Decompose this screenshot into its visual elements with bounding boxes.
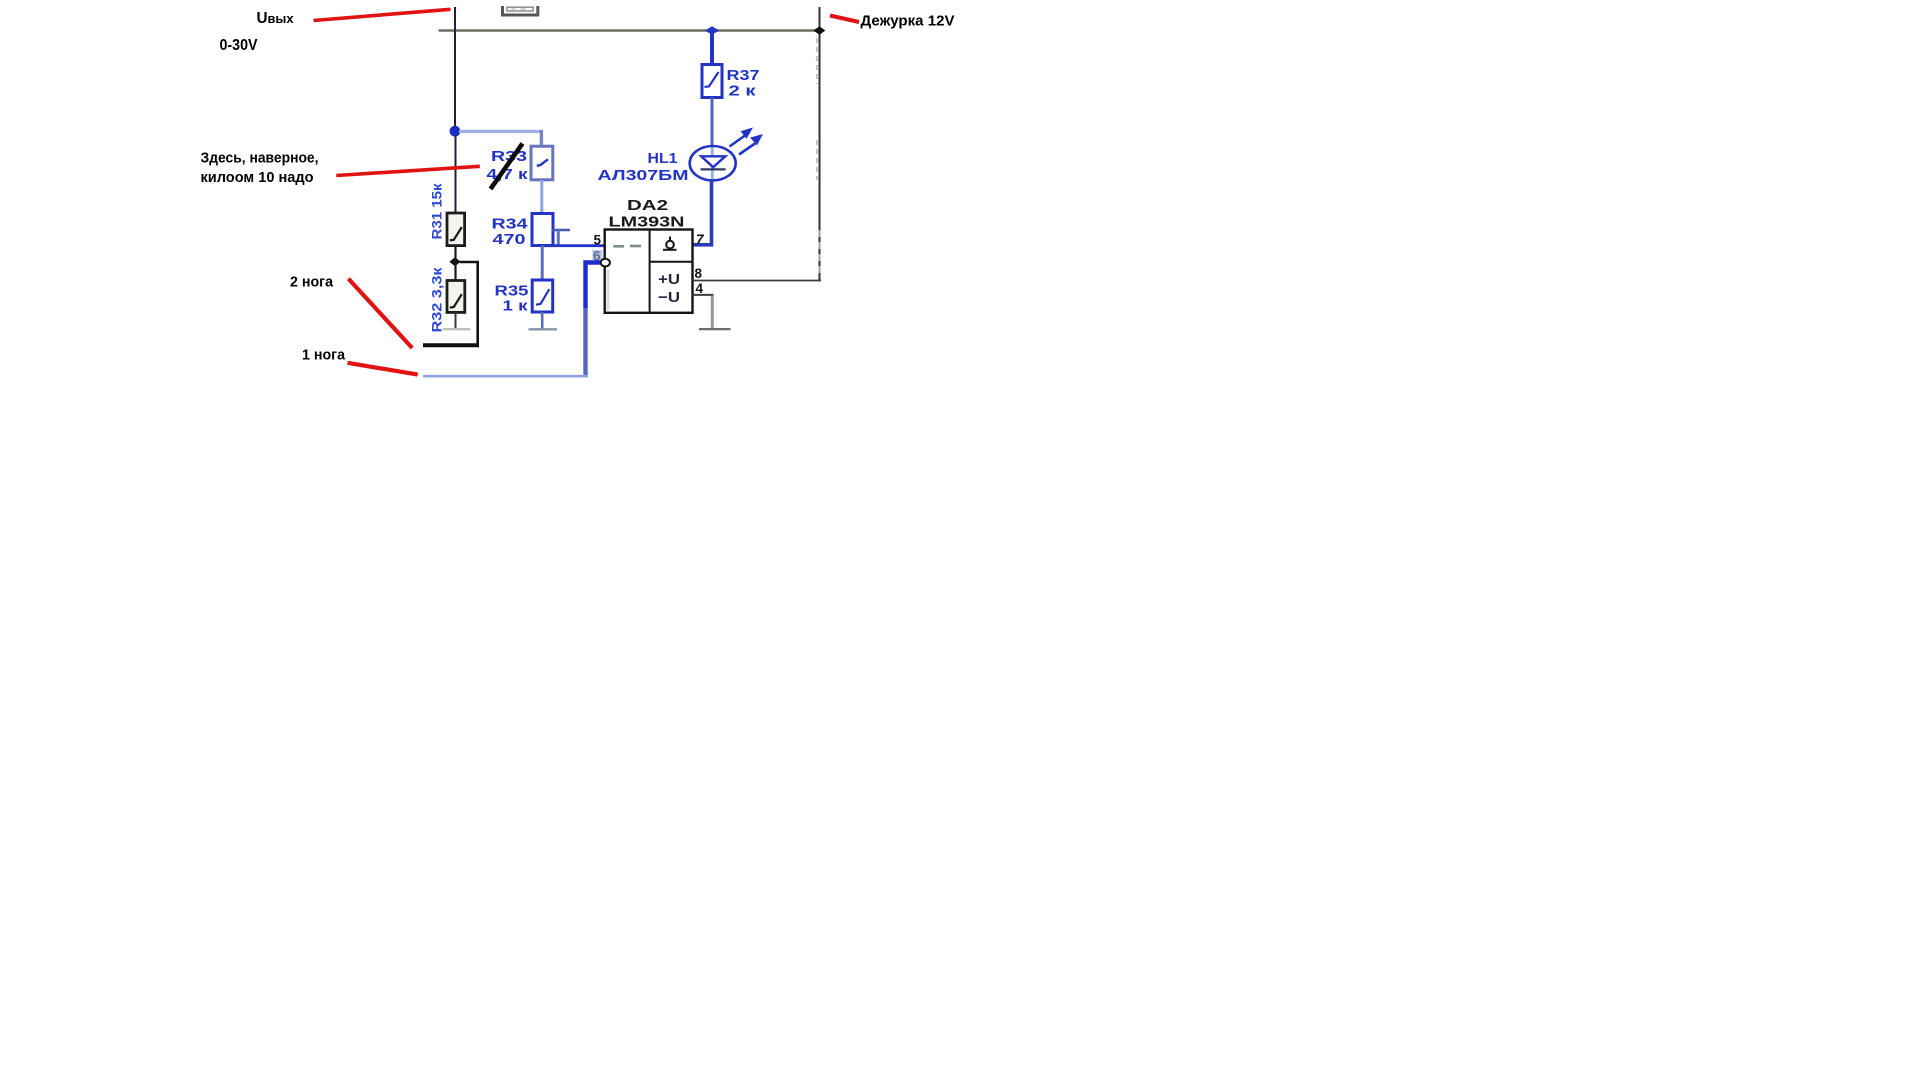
wire: left vertical Uvyh net upper: [454, 7, 456, 136]
DA2 comparator symbol: [663, 237, 677, 250]
wire: R34 tap stub: [552, 229, 571, 231]
svg-text:Здесь, наверное,: Здесь, наверное,: [201, 150, 319, 167]
node: blue junction on bus: [705, 26, 719, 35]
svg-text:1 к: 1 к: [503, 298, 529, 314]
wire: right vertical standby 12V net: [819, 7, 821, 281]
label DA2 LM393N: [609, 198, 685, 231]
svg-text:R32 3,3к: R32 3,3к: [430, 267, 445, 332]
wire: below R32 with light end tick: [455, 312, 457, 329]
connector tab fragment at top: [503, 6, 538, 15]
svg-text:HL1: HL1: [648, 151, 678, 167]
svg-text:R34: R34: [492, 216, 528, 232]
resistor R31: [447, 213, 465, 246]
svg-text:АЛ307БМ: АЛ307БМ: [598, 168, 689, 184]
resistor R33 (crossed out): [531, 146, 553, 180]
wire: 1 noga horizontal: [423, 375, 588, 378]
wire: jpeg artifact dashes on standby net: [817, 38, 820, 276]
wire: top horizontal 12V bus: [439, 29, 821, 31]
resistor R32: [447, 281, 465, 313]
wire: R31 to R32: [454, 246, 456, 282]
resistor R34: [532, 214, 553, 246]
wire: R37 to LED: [711, 98, 714, 148]
red arrow: 2 noga: [348, 279, 412, 348]
node: blue junction Uvyh net: [450, 126, 461, 137]
svg-text:R37: R37: [727, 68, 760, 84]
svg-text:R31 15к: R31 15к: [430, 183, 445, 239]
node: black junction on bus at standby net: [813, 26, 825, 34]
LED HL1: [690, 146, 736, 180]
LED light arrows: [730, 128, 763, 154]
wire: junction to R33: [459, 130, 541, 133]
strike-out line over R33 value: [491, 144, 523, 190]
svg-text:1 нога: 1 нога: [302, 347, 346, 364]
svg-text:5: 5: [594, 232, 602, 247]
wire: to pin 5: [542, 244, 605, 247]
svg-text:4,7 к: 4,7 к: [487, 167, 529, 183]
svg-text:+U: +U: [658, 271, 680, 288]
wire: R33 to R34: [540, 180, 543, 214]
label HL1 AL307BM: [598, 151, 689, 184]
wire: bus junction down to R37: [710, 31, 714, 65]
wire: pin 4 to ground: [693, 294, 714, 296]
resistor R35: [532, 280, 553, 312]
svg-text:DA2: DA2: [627, 198, 668, 214]
svg-text:2 нога: 2 нога: [290, 274, 334, 291]
jpeg artifact band inside DA2 left edge: [607, 270, 610, 311]
svg-text:Uвых: Uвых: [257, 10, 295, 27]
node: black junction below R31: [449, 257, 461, 266]
svg-text:−U: −U: [658, 289, 680, 306]
red arrow: annotation to R33: [336, 166, 480, 175]
comparator DA2 box: [605, 230, 693, 313]
label +U -U: [658, 271, 680, 306]
resistor R37: [702, 65, 722, 98]
wire: R34 to R35: [541, 246, 544, 281]
svg-text:R35: R35: [495, 284, 529, 300]
pin 6 stub patch: [592, 250, 602, 261]
wire: below R35 with end tick: [541, 312, 544, 329]
wire: 2 noga black loop: [460, 262, 478, 345]
svg-text:килоом 10 надо: килоом 10 надо: [201, 169, 314, 186]
DA2 input dashes: [613, 245, 624, 248]
svg-text:Дежурка 12V: Дежурка 12V: [861, 12, 955, 29]
wire: pin 6 to 1 noga (thick blue down): [586, 263, 601, 309]
label R34 470: [492, 216, 528, 248]
svg-text:8: 8: [695, 266, 703, 281]
ground: [699, 328, 731, 330]
svg-text:2 к: 2 к: [729, 83, 757, 99]
wire: LED to pin 7 of DA2: [693, 179, 712, 245]
svg-text:470: 470: [493, 232, 526, 248]
label R35 1k: [495, 284, 529, 315]
svg-text:LM393N: LM393N: [609, 215, 685, 231]
label R33 4,7k: [487, 149, 529, 183]
svg-text:0-30V: 0-30V: [220, 37, 259, 54]
red arrow: standby label: [830, 16, 859, 23]
red arrow: Uvyh to net: [314, 9, 451, 20]
label R37 2k: [727, 68, 760, 99]
wire: left vertical net junction to R31: [455, 136, 457, 214]
wire: pin 8 to standby net: [693, 280, 822, 282]
red arrow: 1 noga: [348, 363, 418, 375]
pin 6 inversion circle: [601, 259, 610, 267]
